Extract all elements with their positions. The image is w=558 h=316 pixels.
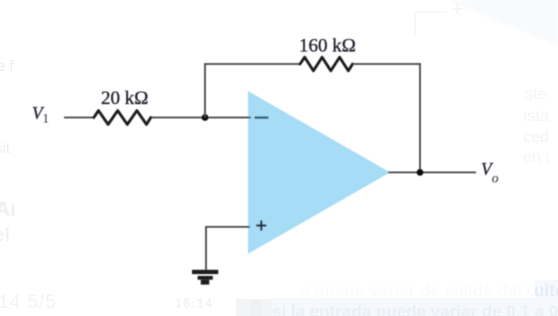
ground [192,270,218,285]
svg-text:20 kΩ: 20 kΩ [101,88,148,109]
wire output [388,171,476,173]
svg-text:ste: ste [525,86,546,103]
svg-text:en ı: en ı [523,149,550,166]
node A junction dot [202,114,209,121]
wire V1 to R1 [64,117,94,119]
resistor R2 zigzag [300,57,353,71]
svg-text:ısta: ısta [523,108,549,125]
non-inverting input (+) [256,220,266,230]
wire top right segment [353,63,421,65]
svg-text:o: o [492,171,499,186]
svg-text:a puede variar de salida del c: a puede variar de salida del circ [300,281,557,300]
wire to ground [206,227,250,271]
svg-text:ced: ced [523,129,549,146]
svg-text:sit: sit [0,140,11,157]
svg-text:uito: uito [534,281,558,300]
node Vo label [481,159,499,186]
wire R1 to op-amp [151,117,251,119]
svg-text:1: 1 [43,112,49,126]
svg-text:14 5/5: 14 5/5 [0,292,57,313]
wire feedback dropper [419,63,421,172]
svg-text:el: el [0,225,10,246]
svg-text:16:14: 16:14 [175,297,213,311]
svg-text:e f: e f [0,58,15,75]
resistor R1 zigzag [94,111,151,125]
node V1 label [32,103,49,126]
node output junction dot [417,169,424,176]
svg-text:si la entrada puede variar de: si la entrada puede variar de 0.1 a 0.5 [272,302,558,316]
wire top left segment [204,63,300,65]
svg-text:160 kΩ: 160 kΩ [299,36,356,57]
wire feedback riser [204,64,206,118]
op-amp U1 [248,91,390,254]
svg-text:Aı: Aı [0,198,16,221]
inverting input (-) [255,116,269,118]
